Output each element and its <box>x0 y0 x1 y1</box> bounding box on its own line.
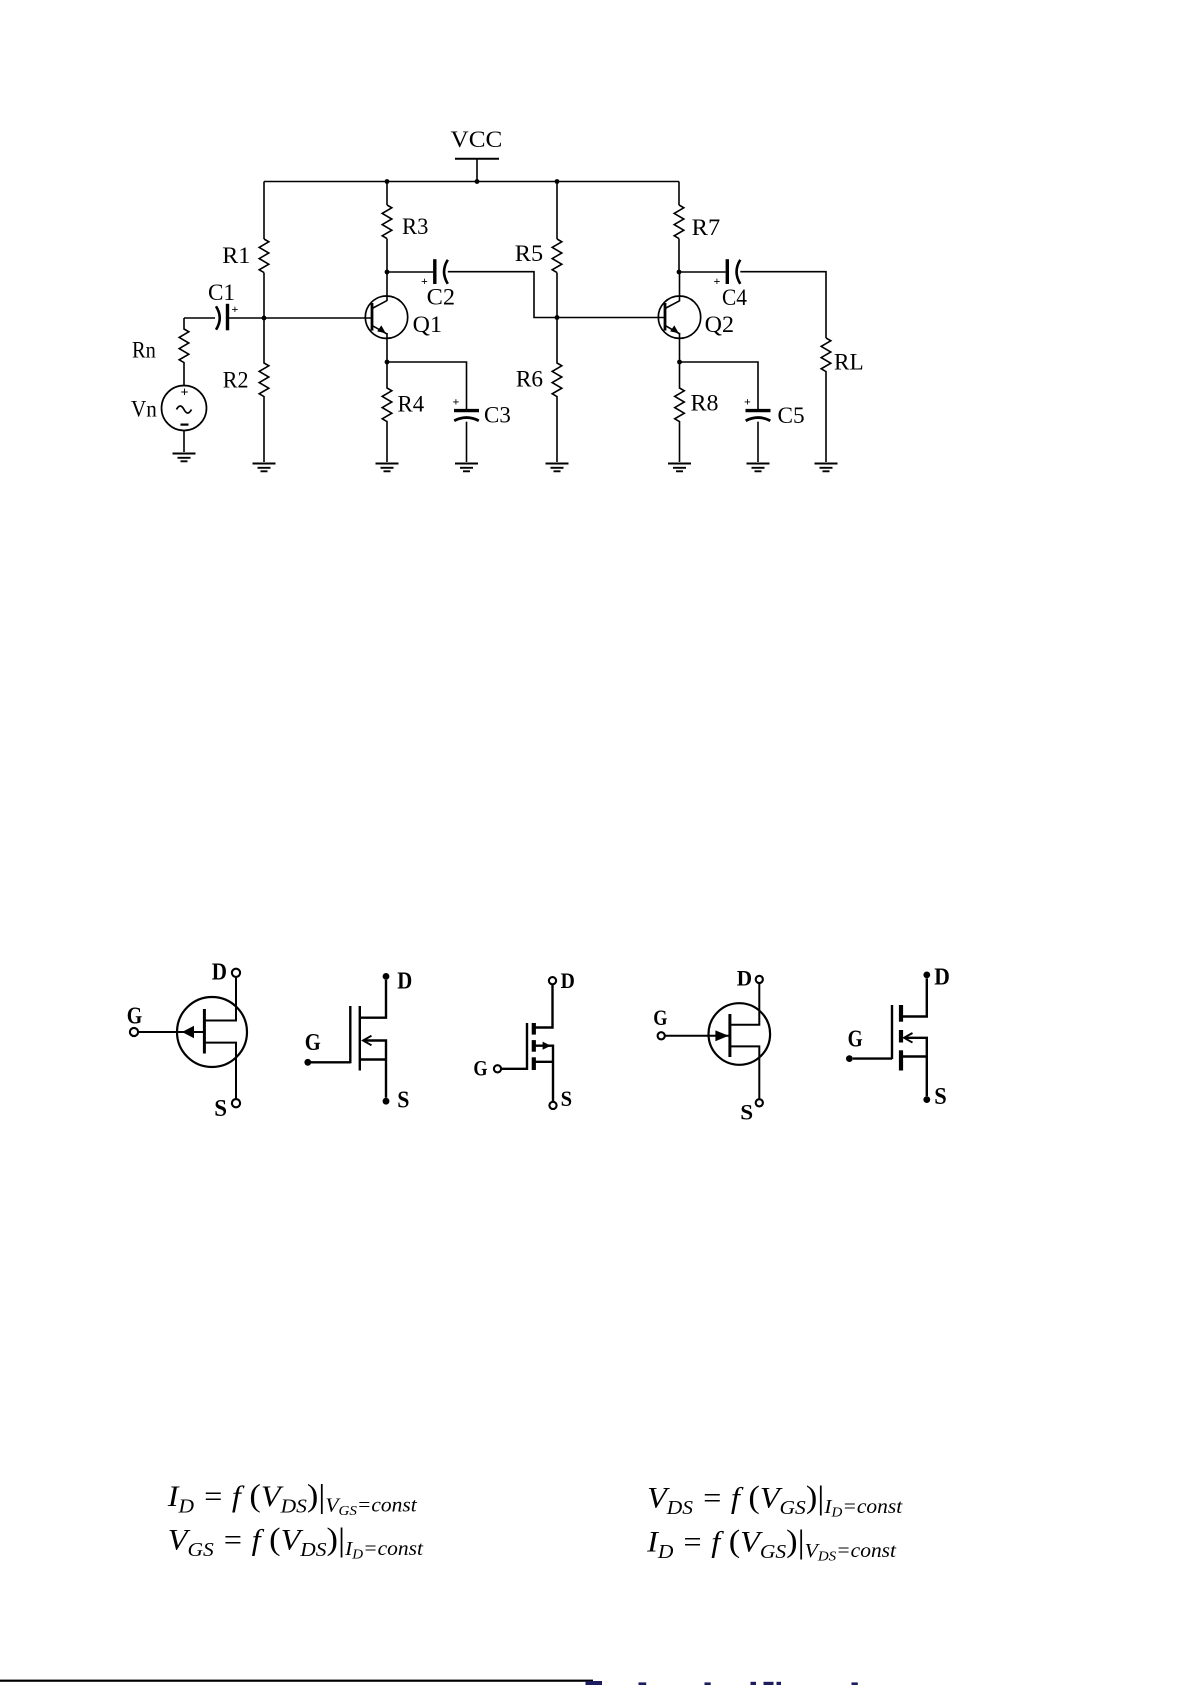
MOSFET U5 p-channel depletion <box>846 964 950 1110</box>
svg-text:G: G <box>127 1003 143 1029</box>
wire rail to R3 <box>386 182 388 206</box>
resistor R6 <box>552 318 562 463</box>
wire R1 to base node <box>263 273 265 318</box>
node Q2 collector junction <box>677 270 682 275</box>
svg-text:+: + <box>714 274 721 288</box>
svg-text:Q2: Q2 <box>705 312 734 337</box>
ground under RL <box>815 464 838 472</box>
JFET U4 n-channel in circle <box>653 965 770 1124</box>
node Q1 collector junction <box>385 270 390 275</box>
ground under C3 <box>455 464 478 472</box>
wire base node to Q1 base <box>264 317 372 319</box>
svg-text:Rn: Rn <box>132 338 156 363</box>
MOSFET U3 n-channel depletion <box>473 968 574 1111</box>
source Vn <box>131 386 207 431</box>
resistor Rn <box>179 318 189 386</box>
wire input node to C1 <box>184 317 215 319</box>
formula ID = f(VGS) at VDS const <box>646 1524 897 1565</box>
svg-text:C2: C2 <box>427 285 455 310</box>
wire collector node to C2 <box>387 271 433 273</box>
wire collector node to C4 <box>679 271 726 273</box>
formula VDS = f(VGS) at ID const <box>647 1480 903 1521</box>
node Q1 emitter junction <box>385 360 390 365</box>
svg-text:D: D <box>934 964 950 990</box>
ground under R4 <box>376 464 399 472</box>
wire rail to R1 <box>263 182 265 240</box>
wire C4 to RL <box>740 272 826 338</box>
svg-text:S: S <box>397 1088 409 1114</box>
svg-text:D: D <box>737 965 752 990</box>
resistor R7 <box>674 205 684 239</box>
capacitor C4 <box>714 259 748 310</box>
svg-text:VCC: VCC <box>451 127 503 152</box>
svg-text:R3: R3 <box>402 214 428 239</box>
node junction rail-R3 <box>385 179 390 184</box>
wire C1 to base node <box>228 317 265 319</box>
svg-text:G: G <box>848 1027 863 1053</box>
svg-text:Vn: Vn <box>131 397 157 422</box>
svg-text:R2: R2 <box>223 368 249 393</box>
svg-text:D: D <box>212 960 227 986</box>
svg-text:Q1: Q1 <box>413 312 442 337</box>
node base-divider junction <box>262 316 267 321</box>
svg-text:D: D <box>397 969 412 995</box>
resistor RL <box>821 338 831 462</box>
wire Q2 emitter to R8 and C5 <box>680 362 759 409</box>
wire C2 to Q2 base <box>448 272 665 318</box>
svg-text:G: G <box>305 1030 321 1056</box>
svg-text:+: + <box>181 386 189 401</box>
JFET U1 p-channel in circle <box>127 960 247 1123</box>
svg-text:S: S <box>214 1096 227 1122</box>
resistor R2 <box>259 318 269 462</box>
svg-text:S: S <box>740 1099 753 1124</box>
node junction rail-R5 <box>555 179 560 184</box>
resistor R8 <box>675 362 685 462</box>
svg-text:R5: R5 <box>515 241 543 266</box>
node Q2 emitter junction <box>677 360 682 365</box>
wire C5 to ground <box>757 422 759 462</box>
wire top rail <box>264 181 679 183</box>
wire rail to R5 <box>556 182 558 240</box>
node R5-R6 junction <box>555 315 560 320</box>
svg-text:RL: RL <box>834 350 864 375</box>
svg-text:+: + <box>744 395 751 409</box>
wire R3 to collector node <box>386 239 388 272</box>
svg-text:S: S <box>561 1086 573 1111</box>
svg-text:C5: C5 <box>778 403 805 428</box>
transistor Q1 <box>365 272 442 362</box>
svg-text:R7: R7 <box>692 215 721 240</box>
ground under R8 <box>668 464 691 472</box>
svg-text:+: + <box>453 395 460 409</box>
svg-text:R8: R8 <box>691 391 719 416</box>
VCC tick wire <box>476 159 478 182</box>
resistor R1 <box>259 239 269 273</box>
wire Vn to ground <box>183 431 185 453</box>
wire R5 to junction <box>556 273 558 318</box>
svg-text:C3: C3 <box>484 403 511 428</box>
svg-text:D: D <box>561 968 575 993</box>
svg-text:R4: R4 <box>398 392 425 417</box>
formula VGS = f(VDS) at ID const <box>168 1522 424 1563</box>
capacitor C2 <box>421 259 455 309</box>
ground under R6 <box>546 464 569 472</box>
bottom cropped text fragments <box>586 1681 858 1685</box>
bottom rule <box>0 1680 593 1682</box>
resistor R4 <box>382 362 392 462</box>
svg-text:S: S <box>934 1084 947 1110</box>
ground under R2 <box>253 464 276 472</box>
VCC power symbol bar <box>455 158 499 160</box>
ground under Vn <box>173 454 196 462</box>
svg-text:G: G <box>653 1005 667 1030</box>
node junction rail-VCC <box>475 179 480 184</box>
formula ID = f(VDS) at VGS const <box>167 1478 418 1519</box>
MOSFET U2 n-channel enhancement <box>304 969 412 1114</box>
capacitor C5 <box>744 395 805 429</box>
svg-text:R1: R1 <box>222 243 250 268</box>
wire R7 to collector node <box>678 239 680 272</box>
resistor R3 <box>382 205 392 239</box>
capacitor C1 <box>208 280 239 330</box>
svg-text:G: G <box>473 1056 487 1081</box>
svg-text:R6: R6 <box>516 367 543 392</box>
wire rail to R7 <box>678 182 680 206</box>
wire C3 to ground <box>466 422 468 462</box>
svg-text:C4: C4 <box>722 285 747 310</box>
wire Q1 emitter to R4 and C3 <box>387 362 467 409</box>
ground under C5 <box>747 464 770 472</box>
resistor R5 <box>552 239 562 273</box>
transistor Q2 <box>658 272 734 362</box>
svg-text:C1: C1 <box>208 280 235 305</box>
capacitor C3 <box>453 395 511 428</box>
